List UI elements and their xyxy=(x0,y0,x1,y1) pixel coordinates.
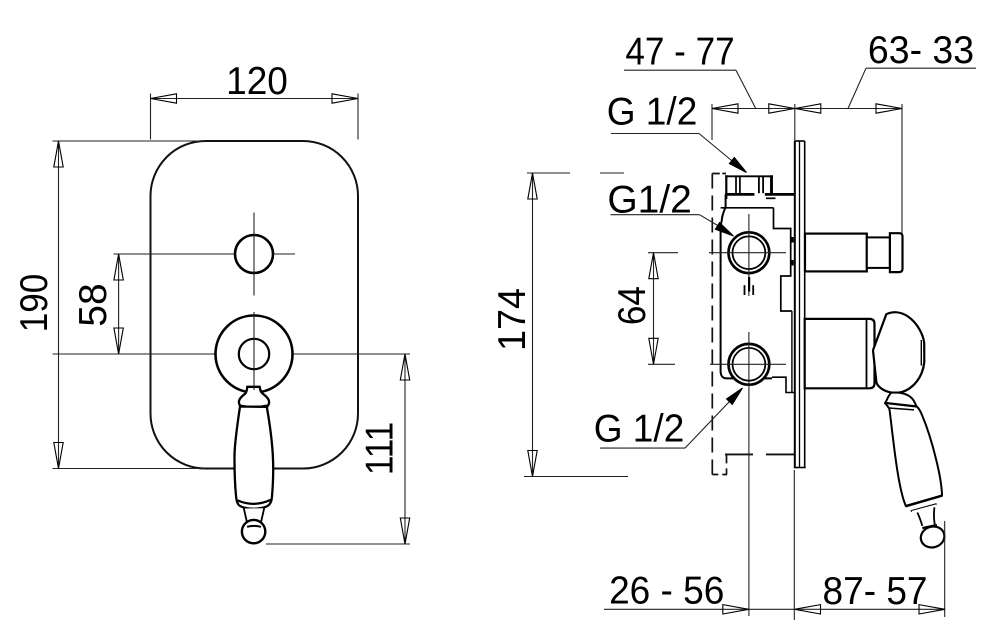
dimension 120: dimension line xyxy=(151,98,359,100)
nut left edge xyxy=(725,175,727,199)
svg-text:174: 174 xyxy=(490,288,534,351)
top knob vertical centerline xyxy=(253,213,255,296)
top dimension line xyxy=(712,108,902,110)
ball joint seam xyxy=(247,525,261,528)
dimension 64: dimension line xyxy=(653,253,655,365)
valve body outline xyxy=(721,195,772,379)
bottom arrows xyxy=(723,605,749,614)
dashed wall bottom corner xyxy=(712,474,727,476)
shower outlet spout body xyxy=(805,234,867,272)
lower port inner circle xyxy=(733,348,766,381)
dimension 111: extension line bottom (y=544) xyxy=(266,543,410,545)
body right top short line xyxy=(766,197,776,199)
wall plate bottom edge xyxy=(794,467,806,469)
lower port vertical centerline xyxy=(748,332,750,616)
filled arrow to lower port xyxy=(727,388,743,405)
lever stem (side view) xyxy=(912,504,937,527)
dashed wall line (max depth) xyxy=(711,174,713,475)
dimension 174: dimension line xyxy=(532,173,534,477)
knob ridge line xyxy=(920,340,922,366)
dimension 174: extension top xyxy=(527,172,570,174)
lever ball joint seam (side view) xyxy=(922,525,937,528)
svg-text:64: 64 xyxy=(609,286,653,325)
text 63- 33 with leader xyxy=(868,28,974,72)
dimension 111: dimension line xyxy=(404,354,406,544)
arrow at wall line pointing left xyxy=(712,104,738,113)
svg-text:26 - 56: 26 - 56 xyxy=(609,570,724,613)
bottom knob inner circle xyxy=(239,339,269,369)
lever stem (front view) xyxy=(244,508,264,521)
label G1/2 middle with leader xyxy=(607,179,692,222)
body right edge upper xyxy=(774,208,792,311)
neck collar line upper xyxy=(885,403,917,407)
svg-text:47 - 77: 47 - 77 xyxy=(625,29,734,73)
spout collar xyxy=(867,237,890,268)
wall plate mid line xyxy=(799,141,801,468)
svg-text:G 1/2: G 1/2 xyxy=(594,407,685,450)
dimension 190: dimension line xyxy=(58,141,60,469)
neck collar line lower xyxy=(889,408,914,410)
valve body top nut xyxy=(726,176,771,194)
set screw nubs on sleeve xyxy=(791,237,793,243)
svg-text:87- 57: 87- 57 xyxy=(823,570,928,613)
dashed wall step vertical xyxy=(726,454,728,474)
arrow at spout end pointing right xyxy=(876,104,902,113)
dimension 64: arrows xyxy=(649,253,658,279)
bottom knob outer circle xyxy=(216,316,293,393)
bottom knob vertical centerline (over handle) xyxy=(253,312,255,390)
top dimension extension line right (x=902) xyxy=(901,104,903,233)
extension line bottom (y=468.5) for 190 xyxy=(53,468,206,470)
dimension 111: top arrow xyxy=(400,354,409,380)
sleeve line behind plate xyxy=(791,311,793,393)
dimension 174: extension bottom xyxy=(524,476,628,478)
dimension 120: extension lines xyxy=(150,94,152,140)
upper port outer circle xyxy=(729,232,770,273)
dimension text 64 (rotated) xyxy=(609,286,653,325)
bottom dimension line xyxy=(604,608,945,610)
filled arrow to upper port xyxy=(715,223,733,237)
nut facet lines xyxy=(735,177,737,194)
lever ball (side view) xyxy=(918,524,947,550)
dimension text 111 (rotated) xyxy=(357,422,401,475)
dimension 190: bottom arrow xyxy=(54,443,63,469)
bottom dimension extension (plate) xyxy=(793,470,795,620)
dimension 58: bottom arrow xyxy=(114,328,123,354)
svg-text:63- 33: 63- 33 xyxy=(868,28,974,72)
extension line top (y=141) for 190 xyxy=(53,140,206,142)
svg-text:111: 111 xyxy=(357,422,401,475)
top knob circle xyxy=(235,235,273,273)
top dimension extension line left (x=712) xyxy=(711,104,713,140)
wall plate top edge xyxy=(795,140,805,142)
dashed wall line (min depth) horizontal xyxy=(725,453,795,455)
bell bottom rim line xyxy=(240,406,268,408)
handle hub cylinder (side view) xyxy=(805,319,875,388)
svg-text:190: 190 xyxy=(11,274,55,333)
spout end cap xyxy=(890,233,903,272)
nut top edge xyxy=(725,175,773,177)
dimension 190: top arrow xyxy=(54,141,63,167)
svg-text:120: 120 xyxy=(226,60,288,103)
text 87- 57 xyxy=(823,570,928,613)
label G 1/2 top with leader xyxy=(607,91,698,134)
dimension text 190 (rotated) xyxy=(11,274,55,333)
arrow pair at plate xyxy=(769,104,795,113)
dashed wall line top corner xyxy=(712,173,726,175)
dimension 111: bottom arrow xyxy=(400,518,409,544)
upper port vertical centerline xyxy=(748,214,750,296)
lever neck and bell collar (front view) xyxy=(239,387,269,407)
text 26 - 56 xyxy=(609,570,724,613)
nut bottom flange line to plate (with throat gap) xyxy=(725,193,754,196)
text 47 - 77 with leader xyxy=(625,29,734,73)
wall plate side view: left face xyxy=(794,141,796,468)
body lower right step xyxy=(772,377,795,392)
lower port outer circle xyxy=(729,344,770,385)
dimension text 120 xyxy=(226,60,288,103)
dimension text 174 (rotated) xyxy=(490,288,534,351)
wall plate right face xyxy=(804,141,806,468)
lever flange (side view) xyxy=(906,496,942,512)
dimension 58: top arrow xyxy=(114,254,123,280)
handle knob cap (side view) xyxy=(873,312,924,392)
hub end line xyxy=(866,320,868,388)
handle neck and lever shaft (side view) xyxy=(885,393,942,506)
dimension 120: left arrow xyxy=(151,94,177,103)
filled arrow to nut xyxy=(729,157,746,172)
dimension 64: extension lines xyxy=(648,252,678,254)
dimension 120: right arrow xyxy=(332,94,358,103)
lever ball (front view) xyxy=(242,520,265,543)
dimension text 58 (rotated) xyxy=(72,283,115,326)
front plate (escutcheon) xyxy=(151,141,359,469)
shaft bottom rim line xyxy=(238,500,271,504)
upper port thread tick marks xyxy=(744,285,746,295)
label G 1/2 bottom with leader xyxy=(594,407,685,450)
horizontal centerline through top knob (y=254) xyxy=(114,253,296,255)
lever shaft (front view) xyxy=(234,407,273,509)
upper port inner circle xyxy=(733,236,766,269)
svg-text:58: 58 xyxy=(72,283,115,326)
svg-text:G 1/2: G 1/2 xyxy=(607,91,698,134)
bottom dimension extension (lever end) xyxy=(944,521,946,617)
nut right edge xyxy=(770,175,773,194)
dimension 174: arrows xyxy=(528,173,537,199)
body widening step xyxy=(721,207,774,209)
top dimension extension line middle (x=794.8) xyxy=(794,104,796,141)
horizontal centerline through bottom knob, long (y=354) xyxy=(53,353,411,355)
dimension 58: dimension line xyxy=(118,254,120,354)
